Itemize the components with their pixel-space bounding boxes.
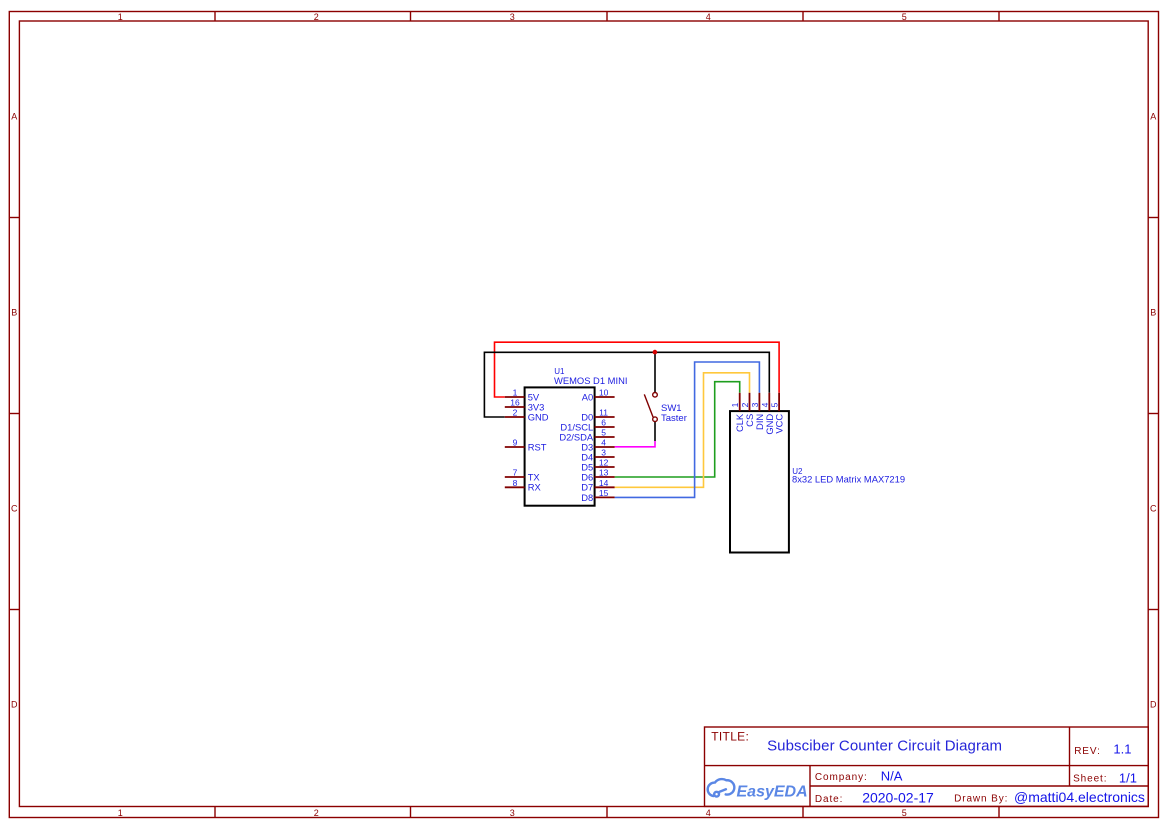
- U1 pin 11 (D0) stub: [595, 416, 615, 418]
- svg-text:REV:: REV:: [1074, 746, 1101, 757]
- svg-text:4: 4: [706, 12, 711, 22]
- wire D6 net (green) from U1 D6 to U2 pin1 CLK: [615, 382, 740, 477]
- U1 pin 9 (RST) stub: [505, 446, 525, 448]
- transistor U2 body 8x32 LED Matrix: [730, 411, 789, 552]
- wire D7 net (yellow) from U1 D7 to U2 pin2 CS: [615, 373, 750, 488]
- svg-text:Company:: Company:: [815, 772, 868, 783]
- svg-text:2: 2: [314, 808, 319, 818]
- svg-text:Taster: Taster: [661, 413, 687, 424]
- svg-text:D: D: [1150, 700, 1157, 710]
- svg-text:3: 3: [601, 448, 606, 458]
- svg-text:B: B: [1150, 308, 1156, 318]
- svg-text:2020-02-17: 2020-02-17: [862, 790, 934, 806]
- title block vertical divider logo cell: [809, 766, 811, 807]
- U2 pin 1 (CLK) stub: [739, 393, 741, 411]
- svg-text:B: B: [11, 308, 17, 318]
- svg-text:11: 11: [599, 408, 608, 418]
- svg-text:1: 1: [730, 402, 740, 407]
- svg-text:12: 12: [599, 458, 609, 468]
- svg-text:TITLE:: TITLE:: [711, 730, 749, 744]
- wire D8 net (blue) from U1 D8 to U2 pin3 DIN: [615, 362, 760, 497]
- U1 pin 15 (D8) stub: [595, 496, 615, 498]
- junction dot on GND net at SW1: [653, 350, 658, 355]
- switch SW1 bottom contact circle: [653, 417, 658, 422]
- svg-text:RST: RST: [528, 441, 547, 452]
- svg-text:1: 1: [118, 12, 123, 22]
- wire SW1 top to GND net (black): [654, 352, 656, 392]
- frame row ticks left: [9, 218, 19, 610]
- svg-text:8: 8: [513, 478, 518, 488]
- svg-text:@matti04.electronics: @matti04.electronics: [1014, 789, 1145, 805]
- frame column numbers top: [118, 12, 907, 22]
- svg-text:3: 3: [510, 12, 515, 22]
- svg-text:D8: D8: [581, 492, 593, 503]
- svg-text:WEMOS D1 MINI: WEMOS D1 MINI: [554, 375, 627, 386]
- wire 5V net (red) from U1 pin1 to U2 pin5: [495, 342, 780, 397]
- svg-text:1.1: 1.1: [1113, 742, 1131, 757]
- svg-text:Subsciber Counter Circuit Diag: Subsciber Counter Circuit Diagram: [767, 738, 1002, 755]
- svg-text:5: 5: [902, 808, 907, 818]
- svg-text:C: C: [1150, 504, 1157, 514]
- U1 pin 10 (A0) stub: [595, 396, 615, 398]
- frame row letters left: [11, 112, 18, 710]
- svg-text:A: A: [11, 112, 17, 122]
- svg-text:2: 2: [314, 12, 319, 22]
- svg-text:Date:: Date:: [815, 794, 843, 805]
- svg-text:1: 1: [513, 388, 518, 398]
- title block divider under title row: [705, 765, 1149, 767]
- svg-text:10: 10: [599, 388, 609, 398]
- svg-text:6: 6: [601, 418, 606, 428]
- svg-text:3: 3: [510, 808, 515, 818]
- U1 pin 8 (RX) stub: [505, 486, 525, 488]
- svg-text:2: 2: [740, 402, 750, 407]
- U2 pin 2 (CS) stub: [749, 393, 751, 411]
- svg-text:2: 2: [513, 408, 518, 418]
- EasyEDA logo cloud: [708, 779, 735, 797]
- svg-text:A: A: [1150, 112, 1156, 122]
- svg-text:15: 15: [599, 488, 609, 498]
- svg-text:14: 14: [599, 478, 609, 488]
- frame column ticks top: [215, 12, 999, 22]
- U1 pin 5 (D2/SDA) stub: [595, 436, 615, 438]
- svg-text:9: 9: [513, 438, 518, 448]
- svg-text:4: 4: [601, 438, 606, 448]
- svg-text:13: 13: [599, 468, 609, 478]
- U1 pin 7 (TX) stub: [505, 476, 525, 478]
- svg-text:Drawn By:: Drawn By:: [954, 793, 1008, 804]
- switch SW1 top contact circle: [653, 393, 658, 398]
- svg-text:RX: RX: [528, 482, 542, 493]
- title block divider under company/sheet row: [810, 785, 1148, 787]
- svg-text:N/A: N/A: [881, 768, 903, 783]
- svg-text:5: 5: [770, 402, 780, 407]
- svg-text:EasyEDA: EasyEDA: [737, 784, 808, 801]
- U1 pin 14 (D7) stub: [595, 486, 615, 488]
- svg-text:7: 7: [513, 468, 518, 478]
- op-amp U1 body WEMOS D1 MINI: [525, 387, 595, 505]
- U1 pin 3 (D4) stub: [595, 456, 615, 458]
- U1 pin 12 (D5) stub: [595, 466, 615, 468]
- U2 pin 4 (GND) stub: [768, 393, 770, 411]
- frame column ticks bottom: [215, 807, 999, 818]
- U2 pin 5 (VCC) stub: [778, 393, 780, 411]
- svg-text:Sheet:: Sheet:: [1073, 774, 1107, 785]
- wire SW1 bottom (black): [654, 421, 656, 441]
- svg-text:4: 4: [706, 808, 711, 818]
- svg-text:8x32 LED Matrix MAX7219: 8x32 LED Matrix MAX7219: [792, 474, 905, 485]
- svg-text:5: 5: [601, 428, 606, 438]
- wire GND net (black) from U1 pin2 to U2 pin4: [484, 352, 769, 417]
- switch SW1 lever: [644, 394, 653, 417]
- title block vertical divider REV/Sheet cells: [1069, 727, 1071, 786]
- svg-text:GND: GND: [528, 411, 549, 422]
- U1 pin 2 (GND) stub: [505, 416, 525, 418]
- svg-text:C: C: [11, 504, 18, 514]
- U2 pin 3 (DIN) stub: [758, 393, 760, 411]
- svg-text:1: 1: [118, 808, 123, 818]
- svg-text:16: 16: [510, 398, 520, 408]
- svg-text:1/1: 1/1: [1119, 770, 1137, 785]
- svg-text:VCC: VCC: [774, 414, 785, 434]
- frame column numbers bottom: [118, 808, 907, 818]
- svg-text:3: 3: [750, 402, 760, 407]
- svg-text:4: 4: [760, 402, 770, 407]
- title block outline: [705, 727, 1149, 806]
- wire D3 net (magenta) from U1 D3 to SW1: [615, 441, 655, 447]
- frame row ticks right: [1148, 218, 1158, 610]
- U1 pin 13 (D6) stub: [595, 476, 615, 478]
- svg-text:5: 5: [902, 12, 907, 22]
- U1 pin 1 (5V) stub: [505, 396, 525, 398]
- svg-text:D: D: [11, 700, 18, 710]
- U1 pin 6 (D1/SCL) stub: [595, 426, 615, 428]
- U1 pin 4 (D3) stub: [595, 446, 615, 448]
- U1 pin 16 (3V3) stub: [505, 406, 525, 408]
- frame row letters right: [1150, 112, 1157, 710]
- svg-text:A0: A0: [582, 391, 593, 402]
